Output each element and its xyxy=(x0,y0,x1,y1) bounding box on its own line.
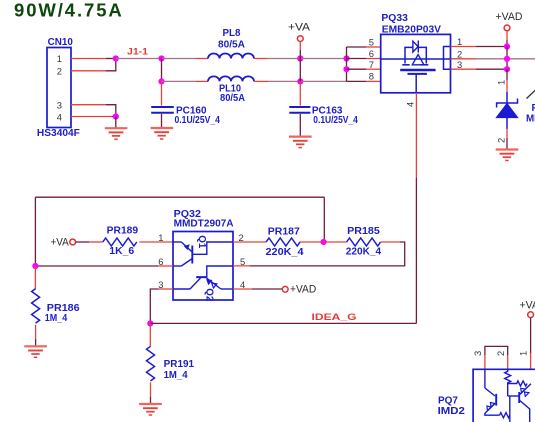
mosfet gate stem xyxy=(415,74,417,93)
wire junction to PR186 xyxy=(34,266,36,289)
junction +VAD pin1 xyxy=(504,43,510,49)
svg-text:PR187: PR187 xyxy=(268,227,301,238)
svg-text:PR189: PR189 xyxy=(107,225,139,236)
capacitor PC163 xyxy=(289,107,310,113)
svg-text:3: 3 xyxy=(457,59,462,70)
wire PR189 to pin1 xyxy=(139,241,173,243)
transistor PQ32 body box xyxy=(173,232,233,301)
wire PR185 feedback corner xyxy=(250,242,405,266)
mosfet arrow triangle xyxy=(412,55,424,65)
transistor PQ7 base-emitter resistor xyxy=(508,381,527,386)
wire CN10 pin2 stub xyxy=(71,70,106,72)
power node +VAD circle xyxy=(504,25,510,31)
svg-text:PQ7: PQ7 xyxy=(438,395,459,406)
wire CN10 pin1 stub xyxy=(71,58,106,60)
svg-text:IMD2: IMD2 xyxy=(438,406,466,417)
svg-text:1: 1 xyxy=(518,351,529,356)
svg-text:6: 6 xyxy=(369,48,374,59)
ground (zener) xyxy=(496,150,519,161)
svg-text:4: 4 xyxy=(240,279,245,290)
svg-text:1K_6: 1K_6 xyxy=(109,246,134,257)
svg-text:Q1: Q1 xyxy=(196,235,207,249)
power node +VA circle (bottom right) xyxy=(528,312,534,318)
mosfet channel bar xyxy=(400,69,435,71)
svg-text:7: 7 xyxy=(369,59,374,70)
wire PL8 right stub xyxy=(254,58,267,60)
svg-text:J1-1: J1-1 xyxy=(127,46,149,57)
svg-text:1M_4: 1M_4 xyxy=(45,313,68,324)
svg-text:MMDT2907A: MMDT2907A xyxy=(174,218,234,229)
wire pin2 stub (PQ32) xyxy=(233,241,266,243)
transistor PQ7 lower transistor xyxy=(485,369,500,415)
resistor PR185 xyxy=(347,238,381,246)
wire pin5 stub (PQ32) xyxy=(233,265,250,267)
wire PR185 right red xyxy=(381,241,400,243)
power node +VA circle (middle) xyxy=(70,239,76,245)
svg-text:CN10: CN10 xyxy=(48,37,74,48)
wire pin6 stub red xyxy=(366,58,381,60)
pin 4 stub (PQ33 gate) xyxy=(415,93,417,178)
wire row1 to bus xyxy=(300,58,346,60)
wire pin4 stub (PQ32) xyxy=(233,288,252,290)
svg-text:+VA: +VA xyxy=(51,236,70,248)
ground (PC163) xyxy=(289,137,312,148)
wire pin8 stub maroon xyxy=(347,80,367,82)
ground (PR191) xyxy=(139,404,162,415)
transistor PQ7 lower resistor xyxy=(500,413,510,418)
svg-text:+VAD: +VAD xyxy=(496,11,523,23)
wire gnd stem CN10 xyxy=(115,117,117,129)
svg-text:8: 8 xyxy=(369,71,374,82)
wire row2 to +VA vertical xyxy=(268,80,300,82)
svg-text:+VAD: +VAD xyxy=(290,283,316,295)
wire pin7 stub red xyxy=(366,68,381,70)
transistor Q1 (PQ32 upper) xyxy=(173,242,233,266)
svg-text:1: 1 xyxy=(496,80,507,85)
svg-text:PQ33: PQ33 xyxy=(381,13,408,24)
wire +VAD stem xyxy=(506,31,508,40)
transistor PQ7 upper transistor xyxy=(508,384,531,422)
wire pin5 stub maroon xyxy=(347,46,367,48)
capacitor PC160 xyxy=(151,107,174,113)
wire +VAD bus vertical xyxy=(506,47,508,70)
svg-text:1: 1 xyxy=(457,36,462,47)
svg-text:PL8: PL8 xyxy=(223,28,242,39)
wire PR186 to gnd maroon xyxy=(35,339,37,346)
ground (CN10) xyxy=(105,128,128,139)
wire row2 from tap to PL10 xyxy=(162,80,197,82)
inductor PL8 xyxy=(208,54,254,59)
wire PC160 tap vertical xyxy=(161,59,163,82)
wire row2 to PC163 xyxy=(299,81,301,105)
transistor PQ7 input resistor (pin2) xyxy=(505,369,511,396)
svg-text:PR191: PR191 xyxy=(164,359,195,370)
mosfet PQ33 source loop right xyxy=(418,47,426,63)
svg-text:1M_4: 1M_4 xyxy=(164,370,189,381)
resistor PR186 xyxy=(32,289,40,324)
wire middle loop top xyxy=(35,196,324,198)
transistor Q2 (PQ32 lower) xyxy=(173,266,233,289)
transistor PQ7 body box (cut off) xyxy=(473,369,535,422)
power node +VA circle xyxy=(297,36,303,42)
wire J1-1 run xyxy=(116,58,162,60)
wire pin2 corner xyxy=(106,59,116,71)
net wire IDEA_G vertical to PQ33 pin4 xyxy=(415,178,417,323)
svg-text:80/5A: 80/5A xyxy=(218,40,245,51)
wire pin2 run to +VAD bus xyxy=(476,58,507,60)
wire PL10 right stub xyxy=(254,80,268,82)
wire junction to PR191 xyxy=(149,323,151,346)
zener diode PD (cathode bar) xyxy=(496,92,517,129)
svg-text:0.1U/25V_4: 0.1U/25V_4 xyxy=(313,115,358,126)
wire pin1 to junction xyxy=(106,58,116,60)
inductor PL10 xyxy=(208,76,254,81)
svg-text:2: 2 xyxy=(496,138,507,143)
wire middle loop right vertical xyxy=(323,197,325,242)
svg-text:6: 6 xyxy=(158,256,163,267)
resistor PR191 xyxy=(147,346,155,381)
svg-text:220K_4: 220K_4 xyxy=(346,247,382,258)
wire pin3 to +VAD bus xyxy=(476,68,507,70)
wire bus vertical (pins 5-8) xyxy=(346,47,348,81)
mosfet channel contact left xyxy=(402,64,409,66)
wire row1 to row2 vertical xyxy=(299,59,301,82)
svg-text:4: 4 xyxy=(57,112,62,123)
junction row2 xyxy=(297,78,303,84)
svg-text:+VA: +VA xyxy=(288,21,311,33)
svg-text:2: 2 xyxy=(495,351,506,356)
svg-text:3: 3 xyxy=(472,351,483,356)
wire pin6 run to left vertical xyxy=(35,265,158,267)
junction row1 +VA xyxy=(297,55,303,61)
wire +VA stem xyxy=(299,42,301,51)
wire PL10 left stub xyxy=(196,80,208,82)
wire PQ7 pin1 stub red xyxy=(530,353,532,369)
wire pin8 stub red xyxy=(366,80,381,82)
wire pin3 corner down xyxy=(150,289,158,323)
svg-text:0.1U/25V_4: 0.1U/25V_4 xyxy=(175,115,221,126)
wire PR187 to junction xyxy=(300,241,324,243)
svg-text:90W/4.75A: 90W/4.75A xyxy=(14,0,124,20)
net wire IDEA_G horizontal xyxy=(150,322,416,324)
resistor PR189 xyxy=(103,238,137,246)
mosfet PQ33 body box xyxy=(381,34,451,92)
wire +VA to PR189 maroon xyxy=(76,241,89,243)
wire pin4 to junction xyxy=(112,116,116,118)
wire PR191 to gnd red xyxy=(150,382,152,397)
wire PQ7 pin3 stub red xyxy=(484,355,486,369)
svg-text:IDEA_G: IDEA_G xyxy=(312,312,357,323)
wire PC160 to gnd xyxy=(161,114,163,128)
svg-text:Q2: Q2 xyxy=(203,288,214,302)
wire pin3 stub xyxy=(71,104,106,106)
mosfet PQ33 drain-source row xyxy=(381,58,451,60)
svg-text:MEZ: MEZ xyxy=(526,114,535,125)
wire row1 to PL8 xyxy=(162,58,197,60)
wire +VAD to pin1 row xyxy=(506,40,508,47)
svg-text:220K_4: 220K_4 xyxy=(266,247,305,258)
wire PC163 to gnd xyxy=(299,114,301,137)
ground (PR186) xyxy=(24,346,47,357)
mosfet right pins bracket xyxy=(444,47,451,70)
wire tap to PC160 xyxy=(161,81,163,105)
wire pin3 corner down xyxy=(106,105,116,117)
wire pin3 stub right (PQ33) xyxy=(451,68,477,70)
junction +VAD pin2 xyxy=(504,56,510,62)
svg-text:+VAD: +VAD xyxy=(520,300,535,312)
mosfet channel contact right xyxy=(421,64,429,66)
svg-text:PD: PD xyxy=(532,103,535,114)
junction PR187/PR185/loop xyxy=(321,239,327,245)
wire PR186 to gnd red xyxy=(35,325,37,339)
wire zener to gnd xyxy=(506,138,508,150)
svg-text:2: 2 xyxy=(57,66,62,77)
wire pin4 to +VAD node xyxy=(252,288,282,290)
svg-text:5: 5 xyxy=(369,37,374,48)
junction bus row1 xyxy=(343,55,349,61)
ground (PC160) xyxy=(151,128,174,139)
wire zener bottom lead red xyxy=(506,129,508,138)
junction row2 tap xyxy=(158,78,164,84)
junction +VAD pin3 xyxy=(504,66,510,72)
svg-text:1: 1 xyxy=(158,232,163,243)
wire PQ7 pin3-pin2 loop xyxy=(485,346,508,355)
junction pin1/pin2 xyxy=(113,55,119,61)
wire zener top lead red xyxy=(506,80,508,92)
wire pin4 stub xyxy=(71,116,112,118)
wire pin7 stub maroon xyxy=(347,68,367,70)
mosfet gate bar xyxy=(408,73,427,75)
wire +VA to row1 xyxy=(299,50,301,59)
wire middle loop left vertical xyxy=(34,197,36,266)
junction row1 at PC160 tap xyxy=(158,55,164,61)
wire row2 to bus bottom xyxy=(300,80,346,82)
wire +VA to PR189 red xyxy=(89,241,103,243)
wire bus to zener xyxy=(506,69,508,80)
wire PL8 left stub xyxy=(196,58,208,60)
connector CN10 body xyxy=(47,48,71,128)
svg-text:HS3404F: HS3404F xyxy=(37,128,80,139)
wire junction to PR185 xyxy=(324,241,347,243)
wire +VA to PQ7 pin1 maroon xyxy=(530,318,532,353)
wire pin2 stub right (PQ33) xyxy=(451,58,477,60)
junction IDEA_G / PR191 xyxy=(147,320,153,326)
wire pin1 to +VAD bus xyxy=(476,46,507,48)
wire row1 to +VA node xyxy=(267,58,300,60)
wire pin5 stub red xyxy=(366,46,381,48)
svg-text:4: 4 xyxy=(405,102,416,107)
wire PR191 to gnd maroon xyxy=(150,397,152,404)
svg-text:2: 2 xyxy=(457,49,462,60)
junction pin3/pin4/gnd xyxy=(113,113,119,119)
svg-text:5: 5 xyxy=(240,256,245,267)
label pointer diagonal (cut off) xyxy=(527,90,535,99)
resistor PR187 xyxy=(266,238,300,246)
transistor PQ7 lower node vertical xyxy=(509,396,511,422)
svg-text:3: 3 xyxy=(158,279,163,290)
wire pin6 stub (PQ32) xyxy=(158,265,173,267)
junction bus pin7 xyxy=(343,66,349,72)
wire pin2 run exits right edge xyxy=(507,58,535,60)
wire pin1 stub right (PQ33) xyxy=(451,46,477,48)
wire pin6 stub maroon xyxy=(347,58,367,60)
svg-text:80/5A: 80/5A xyxy=(220,93,245,104)
junction PR186 top xyxy=(32,263,38,269)
svg-text:1: 1 xyxy=(57,53,62,64)
wire pin3 stub (PQ32) xyxy=(158,288,173,290)
svg-text:PR185: PR185 xyxy=(347,226,380,237)
mosfet PQ33 source loop xyxy=(405,47,413,63)
wire PQ7 pin2 stub red xyxy=(507,355,509,369)
svg-text:3: 3 xyxy=(57,100,62,111)
power node +VAD circle (middle) xyxy=(282,286,288,292)
body diode (PQ33) xyxy=(413,41,418,53)
